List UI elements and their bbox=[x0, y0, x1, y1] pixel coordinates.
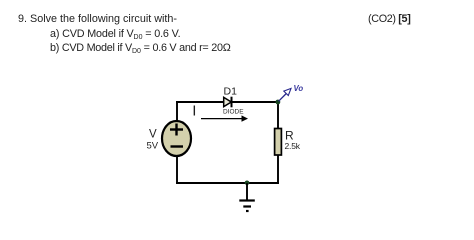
wire: source top to top-left corner bbox=[177, 102, 178, 122]
svg-text:I: I bbox=[192, 102, 196, 119]
diode D1 bbox=[224, 97, 232, 108]
svg-text:Vo: Vo bbox=[294, 84, 304, 93]
svg-text:V: V bbox=[149, 129, 157, 141]
probe arrow to Vo bbox=[279, 88, 292, 101]
wire: resistor bottom to bottom-right corner bbox=[277, 155, 278, 184]
svg-text:D1: D1 bbox=[224, 86, 238, 98]
node: output junction bbox=[276, 100, 281, 105]
resistor R bbox=[275, 129, 282, 156]
current direction arrow bbox=[201, 115, 248, 121]
sub-question a bbox=[50, 29, 180, 41]
ground bbox=[239, 183, 255, 211]
wire: diode cathode to output node bbox=[232, 101, 279, 103]
svg-text:2.5k: 2.5k bbox=[285, 141, 301, 151]
wire: bottom horizontal bbox=[176, 182, 279, 184]
wire: bottom-left corner up to source bottom bbox=[176, 156, 178, 184]
svg-text:DIODE: DIODE bbox=[223, 109, 244, 116]
marks annotation bbox=[368, 14, 410, 25]
voltage source V1 bbox=[162, 121, 191, 156]
wire: top horizontal, corner to diode anode bbox=[176, 101, 224, 103]
node: ground junction bbox=[245, 181, 250, 186]
svg-text:5V: 5V bbox=[147, 141, 159, 152]
sub-question b bbox=[50, 43, 231, 55]
problem statement line 1 bbox=[18, 14, 177, 25]
wire: output node down to resistor top bbox=[277, 102, 279, 129]
